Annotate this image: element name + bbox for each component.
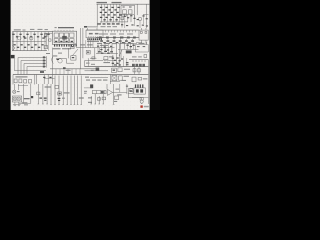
bracket box <box>128 89 133 94</box>
relay top marks <box>123 6 132 7</box>
twin rail b <box>82 28 84 58</box>
connector arrow <box>13 46 16 51</box>
right tangle dashes b <box>121 24 148 26</box>
harness wire 2 <box>21 61 46 75</box>
label dashes <box>85 77 107 81</box>
cap wires <box>99 48 111 52</box>
resistor R17 <box>112 68 117 72</box>
wire <box>130 14 132 22</box>
harness wire 1 <box>18 58 46 75</box>
long component rect <box>92 91 106 94</box>
capacitor row a <box>12 34 49 35</box>
right tangle dashes a <box>120 15 148 21</box>
J2 dash <box>72 57 74 58</box>
resistor bank b <box>103 42 130 43</box>
U1 bottom pins <box>54 44 77 46</box>
wire <box>148 60 150 75</box>
labels <box>114 94 122 102</box>
net label <box>124 76 129 77</box>
net label <box>73 44 93 46</box>
plug pin 3 <box>43 63 45 65</box>
transistor Q7 <box>118 68 122 72</box>
U2 pin wires <box>86 40 93 48</box>
labels <box>79 97 92 103</box>
wires <box>107 84 114 104</box>
power bus <box>97 3 150 5</box>
resistor R11 <box>126 45 134 48</box>
wires <box>121 42 125 49</box>
wire <box>116 44 118 58</box>
U2 inner ticks <box>88 36 101 37</box>
diode D1 <box>100 17 120 18</box>
halftone texture <box>11 0 150 110</box>
relay contact a <box>123 10 127 14</box>
resistor R21 <box>97 98 100 101</box>
wire <box>127 14 129 22</box>
diode array d3 <box>139 64 142 67</box>
terminal 1 <box>14 79 17 83</box>
wire <box>126 84 128 94</box>
dark IC pad <box>90 84 93 88</box>
value labels <box>98 23 120 24</box>
U1 cell r2c4 <box>70 39 74 43</box>
wire <box>119 58 121 67</box>
cable curve <box>52 56 54 64</box>
op-amp U3 <box>107 89 112 95</box>
wire <box>118 42 137 44</box>
ground rail <box>14 69 46 71</box>
wire stub <box>143 14 149 16</box>
wire <box>44 32 52 34</box>
resistor R10 <box>49 39 51 41</box>
twin rail a <box>79 28 81 69</box>
label <box>62 98 65 99</box>
terminal 3 <box>24 79 27 83</box>
net label <box>124 69 130 70</box>
bottom rail <box>12 50 47 52</box>
wire <box>121 14 123 27</box>
wire <box>52 48 54 84</box>
red watermark dot <box>140 105 142 107</box>
electrolytic C22 <box>96 68 100 71</box>
wire <box>134 15 136 19</box>
wire <box>116 58 118 67</box>
wire <box>110 80 120 82</box>
tangle wires mid2 <box>128 43 134 49</box>
wire drops <box>105 4 120 22</box>
wire <box>84 87 92 89</box>
corner wire <box>85 61 97 67</box>
U1 cell r1c4 <box>70 33 74 37</box>
capacitor row b <box>16 36 46 37</box>
wire <box>88 58 90 66</box>
rail dash <box>63 67 66 68</box>
wire <box>45 33 47 47</box>
value label <box>103 62 110 63</box>
wire <box>136 42 142 44</box>
U2 pins dark <box>87 38 102 40</box>
mode label <box>11 55 15 58</box>
plug pin 4 <box>43 66 45 68</box>
resistor row a <box>13 44 43 45</box>
X1 wires <box>142 28 146 44</box>
box dash <box>87 52 89 53</box>
R19 dash <box>59 93 61 94</box>
marks <box>130 88 133 92</box>
box X1 <box>139 30 148 40</box>
value ticks <box>101 22 119 23</box>
wire <box>146 4 148 28</box>
capacitor C20 <box>112 57 123 59</box>
diode D4 <box>71 45 75 49</box>
right tangle wires <box>125 14 144 28</box>
bracket dash <box>129 90 132 91</box>
capacitor C18 <box>57 59 60 60</box>
component J2 <box>71 56 76 60</box>
top dashes <box>46 53 62 54</box>
labels row <box>97 43 133 44</box>
U2 top wires <box>88 28 98 30</box>
wires vertical <box>14 32 49 51</box>
left top rail <box>12 31 52 33</box>
resistor R14 <box>112 62 129 64</box>
K2 dashes <box>137 46 145 47</box>
net label <box>100 45 108 46</box>
harness wire 3 <box>24 64 46 75</box>
relay box K2 <box>135 45 148 52</box>
resistor R18 <box>37 92 40 95</box>
plug pin 1 <box>43 56 45 58</box>
diode array d4 <box>142 64 145 67</box>
ground <box>13 105 21 106</box>
ladder wires <box>56 69 80 75</box>
IC U2 <box>86 30 103 38</box>
dark pad <box>31 96 33 98</box>
wire <box>96 4 98 27</box>
electrolytic C12 <box>44 46 48 49</box>
net label <box>91 68 94 71</box>
comp wires <box>102 39 133 41</box>
wires <box>36 75 48 85</box>
opamp out wire <box>113 91 127 93</box>
right rail <box>86 29 139 31</box>
diode D6 <box>138 69 141 72</box>
bottom right ticks <box>135 84 144 88</box>
component box <box>86 50 90 54</box>
capacitor C21 <box>114 60 121 62</box>
U1 pin labels <box>53 48 71 49</box>
motor M1 cross <box>14 98 17 101</box>
dividers <box>96 91 104 94</box>
component rail <box>96 37 139 39</box>
wire <box>119 84 121 92</box>
R17 dash <box>113 70 116 71</box>
rail label <box>132 56 142 57</box>
black backdrop <box>0 0 160 110</box>
wire <box>120 50 122 58</box>
tangle wires mid <box>98 44 112 54</box>
terminal 4 <box>29 79 32 83</box>
wire TP <box>84 26 97 28</box>
transistor lead <box>119 50 122 56</box>
U1 cell r2c3 <box>65 39 69 43</box>
U1 cell r2c1 <box>54 39 58 43</box>
capacitor C1 <box>100 7 120 8</box>
paper sheet <box>11 0 150 110</box>
U1 center die <box>62 36 67 40</box>
resistor R13 zigzag <box>103 59 109 61</box>
net label <box>66 70 71 71</box>
dark cell <box>101 91 104 93</box>
dark cell b <box>140 89 143 92</box>
X diagonals <box>112 76 117 81</box>
U1 cell r1c3 <box>65 33 69 37</box>
label blob <box>40 71 44 73</box>
watermark text <box>144 106 149 108</box>
net label <box>99 34 133 35</box>
diode array d1 <box>132 64 135 67</box>
right rail <box>148 75 150 105</box>
X1 mark a <box>140 32 142 34</box>
wire <box>19 103 30 105</box>
net label <box>143 78 148 79</box>
U1 cell r1c1 <box>54 33 58 37</box>
connector box <box>134 88 145 94</box>
wire <box>112 55 114 67</box>
stub dash <box>126 86 128 87</box>
IC U1 block <box>52 31 76 44</box>
label <box>17 91 20 92</box>
capacitor C13 <box>98 51 113 53</box>
long rail <box>50 68 96 70</box>
capacitor C6 <box>124 14 126 16</box>
resistor R2 <box>102 14 121 15</box>
net label <box>52 55 57 56</box>
U1 cell dashes <box>55 41 73 42</box>
component box <box>55 85 59 88</box>
component box <box>104 57 108 60</box>
diode array d2 <box>136 64 139 67</box>
wire <box>100 4 102 22</box>
resistor R20 <box>58 98 61 101</box>
wire <box>123 56 126 67</box>
relay box K1 <box>121 5 135 14</box>
connector strip <box>45 56 47 67</box>
test point <box>84 26 87 28</box>
rail ticks <box>133 60 145 62</box>
transistor Q3 <box>18 36 22 40</box>
U2 pad b <box>95 33 99 35</box>
transistor Q8 <box>58 59 62 63</box>
motor wires <box>15 102 19 104</box>
resistor R15 <box>114 64 129 65</box>
inline comps <box>99 37 136 39</box>
node bus <box>100 21 128 23</box>
motor M2 <box>17 97 21 101</box>
shield box <box>56 58 74 63</box>
lamp cross <box>13 91 15 93</box>
plug box <box>140 98 143 100</box>
U1 cell r1c2 <box>59 33 63 37</box>
label <box>24 98 30 99</box>
wire <box>96 53 118 55</box>
label wire <box>14 58 16 70</box>
transistor Q4 <box>29 36 33 40</box>
net label <box>122 80 126 81</box>
wire <box>94 48 96 58</box>
wire <box>110 75 112 85</box>
base dash <box>24 38 45 39</box>
resistor R1 <box>100 12 119 13</box>
wire <box>97 60 115 62</box>
bus label <box>97 2 122 3</box>
small box <box>119 76 123 80</box>
bottom wires <box>38 76 81 105</box>
IC U1 label <box>55 27 75 28</box>
label 4TO3 <box>22 102 28 105</box>
box edges <box>13 75 35 85</box>
value labels b <box>101 26 118 27</box>
wire <box>119 44 121 58</box>
mid rail <box>12 40 46 42</box>
D4 dash <box>71 46 73 47</box>
bottom mid wires <box>91 94 103 104</box>
box with X <box>112 76 117 81</box>
X1 mark b <box>145 32 147 34</box>
resistor R22 <box>102 97 106 100</box>
harness wire 4 <box>27 67 46 75</box>
plug pin 2 <box>43 60 45 62</box>
wires <box>135 67 139 75</box>
terminal 2 <box>19 79 22 83</box>
connector label <box>16 76 28 77</box>
lower rail <box>85 70 109 72</box>
polarized plug <box>140 100 143 103</box>
wire <box>118 48 139 50</box>
capacitor C14 <box>101 53 110 54</box>
capacitor C19 <box>92 57 95 59</box>
wire <box>18 85 28 87</box>
marks <box>138 78 142 81</box>
capacitor C17 <box>144 55 147 58</box>
wire <box>136 4 138 15</box>
wire <box>76 47 115 49</box>
net label <box>109 56 114 57</box>
capacitor C11 <box>44 34 47 37</box>
bus ticks <box>106 30 136 32</box>
U2 label <box>87 41 99 42</box>
main rail <box>13 74 149 76</box>
fuse box <box>132 77 136 82</box>
corner wire <box>128 93 141 99</box>
wires <box>15 84 31 104</box>
net label <box>139 43 145 44</box>
resistor bank <box>100 40 134 41</box>
label <box>45 86 51 87</box>
wire <box>146 42 148 45</box>
wire <box>90 77 108 79</box>
U1 top pins <box>55 30 73 31</box>
motor M1 <box>13 97 17 101</box>
component box <box>115 96 119 100</box>
left rail <box>11 32 13 51</box>
U1 cell r2c2 <box>59 39 63 43</box>
upper right rail <box>129 59 149 61</box>
resistor row b <box>17 47 40 48</box>
diode D5 <box>133 69 136 72</box>
diode D2 <box>103 19 117 20</box>
wire <box>68 48 70 58</box>
rail labels <box>14 29 48 31</box>
main mid rail <box>85 66 149 68</box>
capacitor C23 <box>39 98 46 101</box>
relay contact b <box>128 10 132 14</box>
capacitor C2 <box>102 9 116 10</box>
wire dashes <box>43 77 51 78</box>
lamp L1 <box>13 90 16 93</box>
transistor lead diag <box>73 49 79 56</box>
wire <box>132 97 148 99</box>
label <box>64 92 70 93</box>
transistor Q2 <box>121 17 124 20</box>
net label <box>84 89 119 94</box>
wire <box>44 78 55 80</box>
dark cell a <box>136 89 139 92</box>
U2 pad a <box>89 33 93 35</box>
tangle dashes mid <box>97 46 112 51</box>
speaker box <box>12 96 21 102</box>
wire feet <box>38 103 115 106</box>
motor M2 cross <box>18 98 21 101</box>
electrolytic C16 <box>126 50 132 53</box>
net label <box>86 63 95 65</box>
resistor R19 <box>58 92 62 95</box>
wire <box>90 57 97 59</box>
plug marks <box>141 103 143 105</box>
transistor Q1 <box>139 18 142 21</box>
